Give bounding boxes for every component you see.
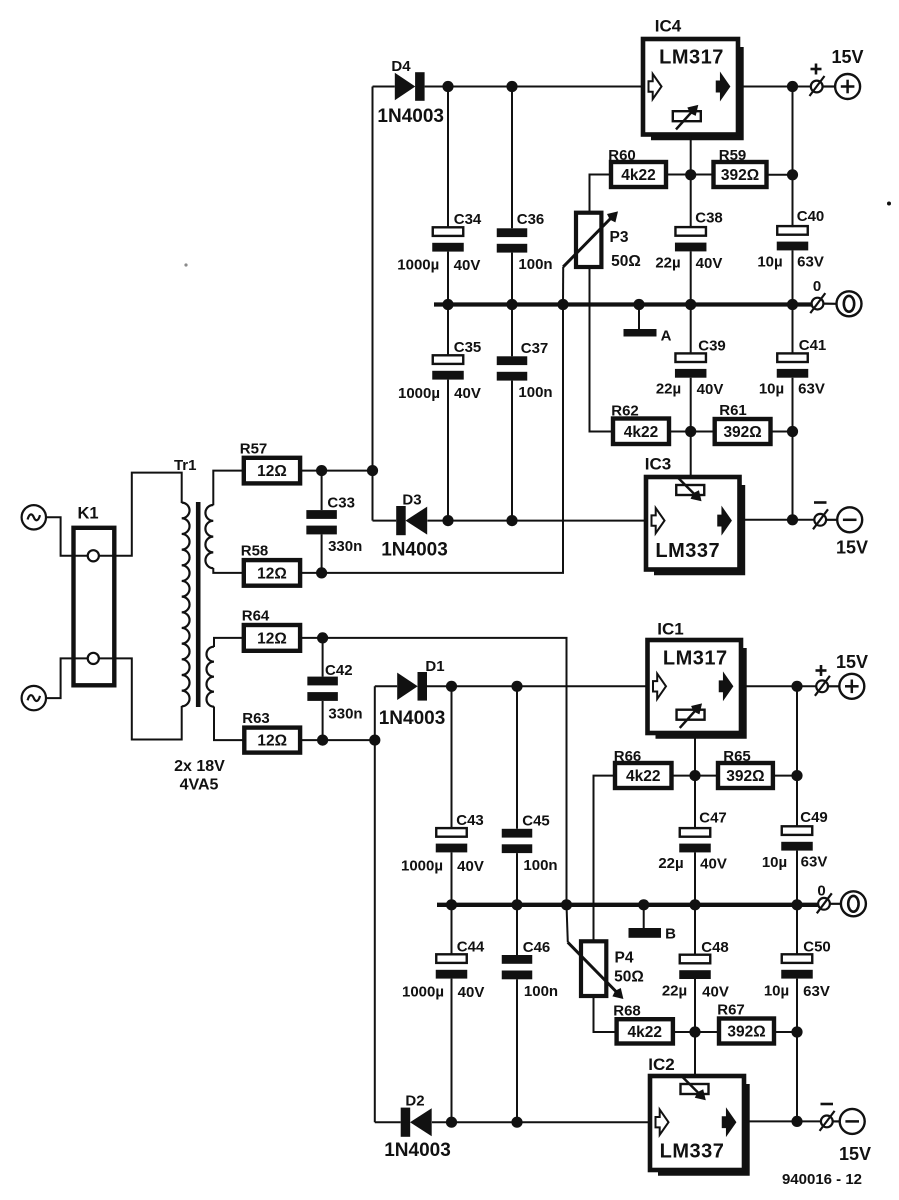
wire R60 to R59 junction <box>666 174 714 176</box>
terminal label 15V lower + <box>836 652 868 672</box>
regulator IC4 label <box>655 17 682 36</box>
capacitor C48 voltage 40V <box>702 984 729 1001</box>
junction R65 / C49 column <box>791 770 802 781</box>
wire R65 right lead <box>773 775 797 777</box>
capacitor C49 value 10µ <box>762 854 787 871</box>
capacitor C39 voltage 40V <box>697 381 724 398</box>
potentiometer P3 value 50Ω <box>611 253 641 270</box>
wire P4 bottom to R68 <box>594 996 617 1032</box>
capacitor C37 <box>497 305 528 521</box>
junction rail1 wiper <box>557 299 568 310</box>
capacitor C50 value 10µ <box>764 983 789 1000</box>
resistor R60 label <box>608 147 636 164</box>
svg-text:12Ω: 12Ω <box>257 463 287 480</box>
wire R66 left lead to P4 <box>594 776 616 942</box>
capacitor C35 value 1000µ <box>398 385 440 402</box>
svg-text:15V: 15V <box>836 652 868 672</box>
capacitor C37 value 100n <box>518 384 552 401</box>
transformer rating label 2x 18V <box>174 758 225 775</box>
junction rail2 C48 <box>689 899 700 910</box>
wire P4 wiper to 0 rail <box>567 905 568 943</box>
terminal label 15V lower - <box>839 1144 871 1164</box>
wire R63 to D1/D2 node <box>300 739 375 741</box>
junction IC1 output node <box>791 681 802 692</box>
junction C34 top <box>442 81 453 92</box>
capacitor C49 voltage 63V <box>801 854 828 871</box>
terminal 0 upper circle <box>837 291 862 316</box>
svg-text:940016 - 12: 940016 - 12 <box>782 1171 862 1188</box>
svg-text:63V: 63V <box>798 381 825 398</box>
svg-text:C47: C47 <box>699 810 727 827</box>
svg-text:LM317: LM317 <box>659 47 724 69</box>
regulator IC3 label <box>645 455 671 474</box>
transformer Tr1 label <box>174 457 197 474</box>
AC source 2 (lower mains input) <box>22 686 46 710</box>
svg-text:10µ: 10µ <box>759 381 784 398</box>
svg-text:C36: C36 <box>517 211 545 228</box>
svg-text:15V: 15V <box>831 47 863 67</box>
capacitor C33 <box>306 471 337 573</box>
junction C42 top <box>317 632 328 643</box>
svg-text:40V: 40V <box>697 381 724 398</box>
svg-text:C50: C50 <box>803 939 831 956</box>
svg-text:10µ: 10µ <box>764 983 789 1000</box>
svg-text:LM317: LM317 <box>663 648 728 670</box>
svg-text:22µ: 22µ <box>656 381 681 398</box>
resistor R59 <box>714 162 767 187</box>
svg-text:2x 18V: 2x 18V <box>174 758 225 775</box>
junction rail2 C46 <box>511 899 522 910</box>
svg-text:C48: C48 <box>701 939 729 956</box>
svg-text:C43: C43 <box>456 812 484 829</box>
capacitor C34 voltage 40V <box>454 257 481 274</box>
resistor R62 <box>613 419 669 445</box>
terminal -15V upper pin <box>813 509 828 529</box>
capacitor C45 value 100n <box>523 857 557 874</box>
svg-text:12Ω: 12Ω <box>257 733 287 750</box>
transformer rating label 4VA5 <box>180 777 219 794</box>
svg-text:C35: C35 <box>454 339 482 356</box>
capacitor C47 label <box>699 810 727 827</box>
resistor R58 <box>244 560 300 586</box>
capacitor C49 <box>781 826 813 905</box>
capacitor C46 <box>502 905 533 1122</box>
0 rail upper <box>434 302 811 306</box>
svg-text:R64: R64 <box>242 608 270 625</box>
junction R63/D1 node <box>369 735 380 746</box>
capacitor C42 <box>307 638 338 740</box>
resistor R63 <box>244 728 300 753</box>
svg-text:D2: D2 <box>405 1093 424 1110</box>
svg-text:63V: 63V <box>797 254 824 271</box>
junction C45 top <box>511 681 522 692</box>
svg-text:0: 0 <box>813 278 821 295</box>
wire - bus lower left segment <box>375 1121 401 1123</box>
terminal label 15V upper + <box>831 47 863 67</box>
svg-text:C38: C38 <box>695 210 723 227</box>
svg-text:IC1: IC1 <box>657 620 683 639</box>
svg-text:C34: C34 <box>454 211 482 228</box>
svg-text:4k22: 4k22 <box>621 167 655 184</box>
svg-text:40V: 40V <box>454 385 481 402</box>
capacitor C44 voltage 40V <box>458 984 485 1001</box>
svg-text:100n: 100n <box>518 256 552 273</box>
diode D4 label <box>391 58 411 75</box>
svg-text:R67: R67 <box>717 1002 745 1019</box>
terminal 0 upper pin <box>810 293 825 313</box>
capacitor C40 label <box>797 208 825 225</box>
resistor R57 label <box>240 441 268 458</box>
wire lower + bus to IC1 input <box>427 685 648 687</box>
svg-text:R57: R57 <box>240 441 268 458</box>
capacitor C38 value 22µ <box>655 255 680 272</box>
wire lower + bus left segment <box>375 685 397 687</box>
svg-text:0: 0 <box>817 883 825 900</box>
junction IC4 adj / R60 / R59 <box>685 169 696 180</box>
junction R61 / C41 column <box>787 426 798 437</box>
K1 pin 1 <box>88 550 99 561</box>
capacitor C41 voltage 63V <box>798 381 825 398</box>
wire AC source 2 to K1 pin 2 <box>46 658 88 698</box>
wire pin to 0 upper circle <box>823 303 836 305</box>
terminal +15V lower circle <box>839 674 864 699</box>
resistor R58 label <box>241 543 269 560</box>
junction IC2 output node <box>791 1116 802 1127</box>
svg-text:100n: 100n <box>524 983 558 1000</box>
svg-text:330n: 330n <box>328 706 362 723</box>
capacitor C41 <box>777 305 809 520</box>
regulator IC2 label <box>648 1055 674 1074</box>
AC source 1 (upper mains input) <box>22 505 46 529</box>
terminal -15V lower circle <box>840 1109 865 1134</box>
junction rail2 wiper <box>561 899 572 910</box>
junction rail2 C44 <box>446 899 457 910</box>
diode D3 <box>396 506 427 535</box>
transformer Tr1 core <box>196 502 201 707</box>
junction C43 top <box>446 681 457 692</box>
regulator IC4 LM317 <box>643 39 741 138</box>
svg-text:1000µ: 1000µ <box>401 858 443 875</box>
terminal -15V upper circle <box>837 507 862 532</box>
capacitor C41 value 10µ <box>759 381 784 398</box>
regulator IC3 LM337 <box>646 477 743 573</box>
svg-text:1000µ: 1000µ <box>397 257 439 274</box>
resistor R59 label <box>719 147 747 164</box>
wire IC4 adj pin <box>690 135 692 176</box>
resistor R60 <box>611 162 666 187</box>
svg-text:63V: 63V <box>803 983 830 1000</box>
svg-text:40V: 40V <box>702 984 729 1001</box>
svg-text:40V: 40V <box>696 255 723 272</box>
diode D2 value 1N4003 <box>384 1140 451 1161</box>
capacitor C39 label <box>698 338 726 355</box>
wire secondary 2 bottom to R63 <box>214 707 244 741</box>
wire R68 to R67 <box>673 1031 719 1033</box>
svg-text:C46: C46 <box>523 939 551 956</box>
wire pin to -15V lower circle <box>833 1120 840 1122</box>
capacitor C48 <box>679 905 711 1032</box>
terminal label 15V upper - <box>836 538 868 558</box>
svg-text:R68: R68 <box>613 1003 641 1020</box>
junction C44 bottom <box>446 1117 457 1128</box>
svg-text:4k22: 4k22 <box>624 424 658 441</box>
svg-text:1000µ: 1000µ <box>402 984 444 1001</box>
diode D4 <box>395 72 425 101</box>
node B label <box>665 926 676 943</box>
svg-text:1N4003: 1N4003 <box>384 1140 451 1161</box>
wire R67 right lead <box>774 1031 797 1033</box>
wire AC source 1 to K1 pin 1 <box>46 517 88 556</box>
terminal - sign lower <box>821 1103 834 1106</box>
diode D2 <box>401 1108 432 1137</box>
svg-text:Tr1: Tr1 <box>174 457 197 474</box>
junction C37 bottom <box>506 515 517 526</box>
capacitor C38 <box>675 175 707 305</box>
scan speckle <box>184 202 891 267</box>
svg-text:392Ω: 392Ω <box>726 768 764 785</box>
svg-text:C49: C49 <box>800 809 828 826</box>
svg-text:330n: 330n <box>328 538 362 555</box>
junction R57/D4 node <box>367 465 378 476</box>
junction rail1 C41 <box>787 299 798 310</box>
svg-text:63V: 63V <box>801 854 828 871</box>
resistor R68 label <box>613 1003 641 1020</box>
svg-text:22µ: 22µ <box>658 855 683 872</box>
regulator IC2 LM337 <box>650 1076 747 1173</box>
terminal + sign upper <box>811 64 822 75</box>
wire +out lower column <box>796 686 798 826</box>
capacitor C43 <box>436 686 468 905</box>
capacitor C43 value 1000µ <box>401 858 443 875</box>
svg-text:LM337: LM337 <box>655 540 720 562</box>
junction rail2 C50 <box>791 899 802 910</box>
svg-text:392Ω: 392Ω <box>727 1024 765 1041</box>
svg-text:50Ω: 50Ω <box>614 969 644 986</box>
junction rail1 C35 <box>442 299 453 310</box>
capacitor C33 value 330n <box>328 538 362 555</box>
svg-text:15V: 15V <box>836 538 868 558</box>
resistor R61 label <box>719 402 747 419</box>
capacitor C47 value 22µ <box>658 855 683 872</box>
svg-text:1000µ: 1000µ <box>398 385 440 402</box>
wire IC3 adj pin <box>690 432 692 478</box>
drawing number 940016 - 12 <box>782 1171 862 1188</box>
wire R59 right lead <box>767 174 793 176</box>
junction rail1 C39 <box>685 299 696 310</box>
capacitor C36 value 100n <box>518 256 552 273</box>
diode D3 label <box>402 492 421 509</box>
junction IC4 output node <box>787 81 798 92</box>
wire IC1 adj pin <box>694 733 696 776</box>
resistor R64 <box>244 625 300 651</box>
wire R61 right lead <box>771 431 793 433</box>
wire upper + bus left segment <box>373 86 395 88</box>
capacitor C49 label <box>800 809 828 826</box>
junction C42 bottom <box>317 735 328 746</box>
wire R57 to D4/D3 node <box>300 470 372 472</box>
resistor R65 <box>718 763 773 788</box>
junction rail1 node A <box>633 299 644 310</box>
wire R64 to lower 0 rail <box>300 638 566 905</box>
wire R66 to R65 junction <box>672 775 719 777</box>
diode D4 value 1N4003 <box>377 106 444 127</box>
node B bar <box>629 928 662 938</box>
svg-text:22µ: 22µ <box>662 983 687 1000</box>
capacitor C42 value 330n <box>328 706 362 723</box>
wire P3 bottom to R62 <box>590 267 614 432</box>
terminal 0 lower circle <box>841 891 866 916</box>
node B stub <box>643 905 645 929</box>
svg-text:C37: C37 <box>521 340 549 357</box>
wire IC2 adj pin <box>694 1032 696 1076</box>
capacitor C35 label <box>454 339 482 356</box>
svg-text:C39: C39 <box>698 338 726 355</box>
capacitor C44 <box>436 905 468 1122</box>
terminal -15V lower pin <box>820 1111 835 1131</box>
svg-text:P4: P4 <box>615 950 634 967</box>
svg-text:22µ: 22µ <box>655 255 680 272</box>
wire lower winding branch vertical <box>374 686 376 1122</box>
svg-text:10µ: 10µ <box>762 854 787 871</box>
svg-text:K1: K1 <box>77 505 98 523</box>
svg-text:40V: 40V <box>700 856 727 873</box>
svg-text:4VA5: 4VA5 <box>180 777 219 794</box>
svg-text:C40: C40 <box>797 208 825 225</box>
wire - bus lower to IC2 input <box>432 1121 650 1123</box>
svg-text:D1: D1 <box>425 658 444 675</box>
svg-text:IC2: IC2 <box>648 1055 674 1074</box>
capacitor C43 label <box>456 812 484 829</box>
capacitor C34 <box>432 87 464 305</box>
capacitor C47 <box>679 776 711 905</box>
svg-text:4k22: 4k22 <box>626 768 660 785</box>
resistor R65 label <box>723 748 751 765</box>
capacitor C45 label <box>522 813 550 830</box>
wire secondary 2 top to R64 <box>214 638 244 647</box>
capacitor C38 label <box>695 210 723 227</box>
svg-text:A: A <box>661 328 672 345</box>
terminal label 0 upper <box>813 278 821 295</box>
resistor R68 <box>617 1019 673 1043</box>
junction C46 bottom <box>511 1117 522 1128</box>
potentiometer P3 label <box>610 229 629 246</box>
resistor R57 <box>244 458 300 484</box>
potentiometer P4 label <box>615 950 634 967</box>
junction R59 / C40 column <box>787 169 798 180</box>
resistor R62 label <box>611 403 639 420</box>
node A stub <box>638 305 640 330</box>
node A bar <box>624 329 657 337</box>
capacitor C46 label <box>523 939 551 956</box>
capacitor C37 label <box>521 340 549 357</box>
capacitor C41 label <box>799 337 827 354</box>
svg-text:C33: C33 <box>327 495 355 512</box>
wire pin to -15V upper circle <box>826 519 837 521</box>
capacitor C48 value 22µ <box>662 983 687 1000</box>
resistor R67 label <box>717 1002 745 1019</box>
wire R60 left lead to P3 <box>590 175 612 214</box>
svg-text:392Ω: 392Ω <box>721 167 759 184</box>
capacitor C42 label <box>325 662 353 679</box>
wire IC1 output to +15V terminal <box>741 685 816 687</box>
capacitor C40 <box>777 226 809 304</box>
terminal label 0 lower <box>817 883 825 900</box>
svg-text:4k22: 4k22 <box>628 1024 662 1041</box>
regulator IC1 LM317 <box>648 640 745 736</box>
resistor R63 label <box>242 710 270 727</box>
resistor R66 label <box>614 748 642 765</box>
resistor R64 label <box>242 608 270 625</box>
wire K1 pin 1 to Tr1 primary top <box>99 473 182 556</box>
capacitor C38 voltage 40V <box>696 255 723 272</box>
node A label <box>661 328 672 345</box>
svg-text:C45: C45 <box>522 813 550 830</box>
svg-text:392Ω: 392Ω <box>723 424 761 441</box>
capacitor C36 <box>497 87 528 305</box>
wire upper + bus to IC4 input <box>425 86 643 88</box>
svg-text:R58: R58 <box>241 543 269 560</box>
svg-text:100n: 100n <box>523 857 557 874</box>
svg-text:D3: D3 <box>402 492 421 509</box>
svg-text:IC4: IC4 <box>655 17 682 36</box>
svg-text:100n: 100n <box>518 384 552 401</box>
svg-text:R61: R61 <box>719 402 747 419</box>
svg-text:1N4003: 1N4003 <box>377 106 444 127</box>
svg-text:1N4003: 1N4003 <box>381 540 448 561</box>
wire pin to +15V upper circle <box>823 85 836 87</box>
wire IC3 output to -15V terminal <box>740 519 815 521</box>
K1 pin 2 <box>88 653 99 664</box>
junction rail2 node B <box>638 899 649 910</box>
capacitor C47 voltage 40V <box>700 856 727 873</box>
svg-text:P3: P3 <box>610 229 629 246</box>
svg-text:C41: C41 <box>799 337 827 354</box>
wire - bus upper to IC3 input <box>427 520 646 522</box>
connector K1 <box>74 505 115 686</box>
capacitor C46 value 100n <box>524 983 558 1000</box>
terminal 0 lower pin <box>817 893 832 913</box>
transformer Tr1 secondary winding 2 <box>207 647 214 707</box>
resistor R67 <box>719 1019 774 1044</box>
potentiometer P4 value 50Ω <box>614 969 644 986</box>
svg-text:IC3: IC3 <box>645 455 671 474</box>
wire P3 wiper to 0 rail <box>562 267 564 305</box>
capacitor C48 label <box>701 939 729 956</box>
capacitor C36 label <box>517 211 545 228</box>
capacitor C35 <box>432 305 464 521</box>
diode D1 value 1N4003 <box>379 708 446 729</box>
junction C36 top <box>506 81 517 92</box>
svg-text:LM337: LM337 <box>660 1141 725 1163</box>
wire pin to +15V lower circle <box>828 685 839 687</box>
terminal +15V upper pin <box>810 76 825 96</box>
wire pin to 0 lower circle <box>830 903 841 905</box>
capacitor C44 label <box>457 939 485 956</box>
svg-text:40V: 40V <box>457 858 484 875</box>
wire secondary 1 top to R57 <box>213 471 244 506</box>
capacitor C50 <box>781 905 813 1122</box>
transformer Tr1 secondary winding 1 <box>205 505 213 568</box>
junction C35 bottom <box>442 515 453 526</box>
svg-text:R63: R63 <box>242 710 270 727</box>
junction IC1 adj / R66 / R65 <box>689 770 700 781</box>
svg-text:B: B <box>665 926 676 943</box>
svg-text:C44: C44 <box>457 939 485 956</box>
resistor R61 <box>715 419 771 444</box>
svg-text:10µ: 10µ <box>757 254 782 271</box>
svg-text:1N4003: 1N4003 <box>379 708 446 729</box>
diode D2 label <box>405 1093 424 1110</box>
